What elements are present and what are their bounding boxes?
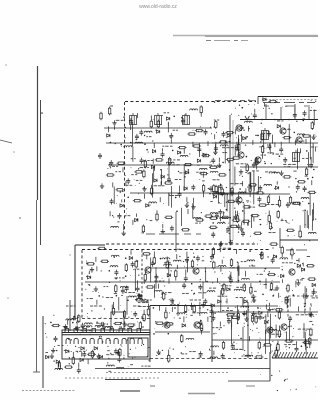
resistor R107 [285, 296, 287, 305]
label text T96 [134, 268, 143, 270]
resistor R119 [306, 265, 315, 267]
ground GND20 [94, 286, 98, 291]
scan speck S192 [279, 295, 282, 298]
scan speck S142 [229, 194, 232, 197]
bottom dashed note [106, 372, 230, 374]
label text T122 [182, 292, 189, 294]
mid link wire [289, 298, 291, 307]
scan speck S374 [162, 350, 163, 351]
stub wire [256, 165, 258, 170]
scan speck S91 [286, 221, 287, 222]
label text T71 [287, 166, 290, 168]
inductor L33 [218, 266, 226, 268]
junction J62 [238, 280, 240, 282]
transistor Q11 [164, 322, 170, 328]
scan speck S384 [277, 343, 278, 344]
label text T13 [304, 105, 310, 107]
scan speck S353 [63, 326, 64, 327]
inductor L40 [242, 278, 250, 280]
scan speck S303 [100, 316, 103, 319]
resistor R13 [201, 154, 210, 156]
scan speck S102 [299, 150, 302, 153]
diode D18 [277, 125, 280, 128]
connector pin 2 [74, 329, 78, 333]
junction J79 [73, 316, 75, 318]
resistor R116 [226, 314, 235, 316]
scan speck S439 [292, 327, 295, 330]
junction J48 [230, 217, 232, 219]
resistor R57 [243, 206, 252, 208]
margin stray wire [0, 140, 12, 143]
diode D10 [184, 187, 187, 190]
ground GND37 [97, 353, 101, 358]
label text T154 [66, 305, 76, 307]
inductor L36 [162, 258, 170, 260]
edge link wire [306, 210, 308, 228]
diode D4 [152, 150, 155, 153]
resistor R136 [135, 299, 144, 301]
resistor R125 [119, 348, 121, 357]
junction J88 [240, 338, 242, 340]
scan speck S310 [129, 327, 130, 328]
capacitor C21 [218, 209, 222, 215]
svg-text:www.old-radio.cz: www.old-radio.cz [139, 4, 177, 10]
scan speck S93 [311, 100, 312, 101]
junction J45 [228, 161, 230, 163]
junction J54 [160, 258, 162, 260]
resistor R127 [87, 353, 96, 355]
hatched strip [272, 352, 317, 358]
pin number 5 [108, 326, 111, 328]
capacitor C15 [126, 178, 130, 184]
capacitor C43 [252, 162, 256, 168]
scan speck S383 [268, 330, 269, 331]
capacitor C22 [226, 226, 230, 232]
capacitor C75 [82, 351, 86, 357]
capacitor C25 [293, 112, 297, 118]
scan speck S300 [134, 356, 135, 357]
scan speck S309 [99, 336, 100, 337]
label text T139 [296, 279, 303, 281]
scan speck S285 [136, 320, 139, 323]
capacitor C82 [288, 316, 292, 322]
scan speck S191 [263, 317, 264, 318]
junction J70 [293, 294, 295, 296]
scan speck S265 [200, 279, 201, 280]
scan speck S296 [115, 330, 118, 333]
scan speck S340 [109, 340, 110, 341]
stub wire [236, 142, 238, 145]
scan speck S428 [272, 329, 273, 330]
label text T22 [162, 145, 172, 147]
resistor R50 [267, 195, 269, 204]
tap wire [176, 254, 178, 259]
inductor L14 [149, 202, 157, 204]
capacitor C19 [233, 214, 237, 220]
diode D41 [46, 356, 49, 359]
scan speck S243 [86, 276, 87, 277]
left bus foot [33, 371, 40, 373]
scan speck S49 [169, 194, 170, 195]
resistor R10 [168, 157, 170, 166]
scan speck S26 [137, 192, 140, 195]
capacitor C30 [235, 145, 239, 151]
label text T30 [131, 174, 137, 176]
scan speck S318 [53, 315, 54, 316]
scan speck S64 [184, 113, 187, 116]
scan speck S35 [115, 143, 116, 144]
junction J71 [127, 300, 129, 302]
scan speck S27 [125, 137, 126, 138]
diode D29 [227, 288, 230, 291]
scan speck S314 [146, 355, 149, 358]
stub wire [299, 225, 301, 231]
resistor R8 [117, 162, 126, 164]
resistor R124 [91, 350, 93, 359]
label text T97 [202, 260, 205, 262]
scan speck S426 [289, 340, 292, 343]
scan speck S302 [79, 333, 82, 336]
footer dashed mark [22, 390, 75, 392]
junction J12 [188, 169, 190, 171]
scan speck S267 [277, 275, 280, 278]
scan speck S24 [120, 191, 121, 192]
label text T136 [218, 295, 228, 297]
scan speck S155 [227, 222, 230, 225]
resistor R14 [106, 174, 115, 176]
resistor R137 [231, 316, 240, 318]
inductor L53 [55, 368, 63, 369]
tap wire [249, 336, 251, 341]
junction J44 [222, 162, 224, 164]
junction J9 [144, 143, 146, 145]
edge link wire [313, 203, 315, 221]
label text T67 [294, 157, 296, 159]
stub wire [137, 280, 139, 285]
scan speck S246 [178, 302, 181, 305]
inductor L20 [245, 121, 253, 123]
scan speck S305 [127, 339, 128, 340]
connector drop wire [69, 300, 71, 331]
ground GND28 [242, 311, 246, 316]
resistor R113 [123, 310, 125, 319]
if link wire [263, 132, 265, 154]
resistor R108 [112, 307, 114, 316]
psu link wire [289, 321, 291, 342]
junction J39 [312, 177, 314, 179]
transistor Q10 [281, 324, 287, 330]
left bus wire 2 [40, 100, 42, 245]
diode D16 [263, 98, 266, 101]
scan speck S222 [160, 296, 163, 299]
tap wire [253, 186, 255, 191]
scan speck S451 [271, 375, 272, 376]
scan speck S144 [264, 184, 265, 185]
junction J55 [187, 257, 189, 259]
stub wire [176, 265, 178, 269]
stub wire [237, 310, 239, 314]
label text T152 [130, 364, 133, 366]
label text T72 [293, 170, 296, 172]
ground GND16 [90, 267, 94, 272]
rf link wire [183, 165, 185, 191]
junction J18 [247, 223, 249, 225]
junction J58 [109, 270, 111, 272]
label text T52 [285, 105, 287, 107]
scan speck S450 [277, 390, 278, 391]
scan speck S193 [282, 269, 283, 270]
label text T76 [246, 200, 249, 202]
tap wire [172, 299, 174, 304]
resistor R6 [195, 129, 204, 131]
tap wire [144, 194, 146, 199]
junction J31 [226, 209, 228, 211]
tap wire [171, 307, 173, 312]
diode D32 [211, 304, 214, 307]
stub wire [245, 271, 247, 277]
frame corner top [75, 244, 105, 246]
scan speck S74 [249, 200, 252, 203]
label text T130 [236, 297, 246, 299]
label text T38 [209, 193, 220, 195]
scan speck S366 [153, 327, 156, 330]
capacitor C11 [167, 177, 171, 183]
scan speck S420 [256, 328, 257, 329]
scan speck S12 [112, 215, 113, 216]
scan speck S342 [130, 349, 131, 350]
inductor L60 [245, 355, 253, 357]
scan speck S283 [237, 262, 238, 263]
capacitor C49 [271, 258, 275, 264]
junction J65 [116, 295, 118, 297]
scan speck S289 [142, 319, 145, 322]
tap wire [312, 209, 314, 214]
label text T138 [296, 259, 299, 261]
scan speck S54 [162, 202, 165, 205]
stub wire [254, 109, 256, 113]
scan speck S197 [119, 304, 122, 307]
inductor L47 [199, 312, 207, 314]
label text T39 [126, 184, 132, 186]
tap wire [236, 249, 238, 254]
ground GND17 [100, 183, 104, 188]
label text T179 [246, 385, 255, 387]
resistor R90 [153, 256, 155, 265]
scan speck S73 [239, 105, 240, 106]
capacitor C70 [100, 322, 106, 326]
label text T115 [270, 289, 277, 291]
label text T102 [164, 262, 171, 264]
scan speck S240 [184, 286, 187, 289]
pin number 8 [141, 326, 144, 328]
scan speck S272 [294, 263, 295, 264]
resistor R52 [289, 196, 291, 205]
label text T14 [215, 100, 221, 102]
capacitor C80 [199, 351, 203, 357]
diode D28 [281, 274, 284, 277]
label text T16 [240, 100, 245, 102]
dial box left [257, 97, 259, 105]
scan speck S48 [166, 168, 169, 171]
label text T21 [173, 129, 178, 131]
scan speck S221 [109, 282, 110, 283]
capacitor C52 [210, 254, 214, 260]
scan speck S280 [273, 295, 274, 296]
scan speck S200 [130, 311, 133, 314]
inductor L16 [238, 192, 246, 194]
stub wire [185, 270, 187, 276]
tap wire [187, 209, 189, 214]
scan speck S423 [215, 333, 216, 334]
scan speck S130 [247, 103, 250, 106]
scan speck S334 [76, 322, 77, 323]
resistor R133 [181, 334, 183, 343]
scan speck S262 [193, 253, 194, 254]
label text T140 [312, 297, 319, 299]
left bus wire [37, 66, 39, 200]
label text T166 [296, 314, 308, 316]
dial box top [258, 96, 318, 98]
capacitor C85 [295, 346, 299, 352]
ground GND30 [296, 280, 300, 285]
tap wire [295, 281, 297, 286]
junction J64 [98, 295, 100, 297]
label text T85 [219, 247, 231, 249]
dial drop wire [265, 104, 267, 119]
scan speck S185 [272, 247, 273, 248]
label text T113 [198, 292, 206, 294]
stub wire [214, 144, 216, 149]
scan speck S419 [232, 312, 235, 315]
ground GND22 [275, 285, 279, 290]
scan speck S117 [226, 202, 227, 203]
resistor R7 [178, 146, 187, 148]
junction J86 [247, 324, 249, 326]
scan speck S45 [170, 137, 171, 138]
inductor L22 [210, 171, 218, 173]
stub wire [219, 215, 221, 221]
scan speck S299 [132, 331, 133, 332]
scan speck S231 [86, 312, 89, 315]
scan speck S406 [257, 307, 258, 308]
scan speck S338 [56, 350, 57, 351]
diode D30 [244, 300, 247, 303]
scan speck S312 [107, 323, 108, 324]
resistor R132 [165, 323, 174, 325]
junction J73 [272, 309, 274, 311]
scan speck S169 [234, 207, 235, 208]
scan speck S66 [267, 130, 270, 133]
stub wire [168, 278, 170, 283]
tap wire [245, 188, 247, 193]
scan speck S385 [286, 346, 287, 347]
diode D8 [203, 153, 206, 156]
junction J8 [130, 142, 132, 144]
stub wire [78, 363, 80, 368]
label text T57 [277, 120, 284, 122]
resistor R66 [299, 230, 301, 239]
scan speck S430 [284, 331, 287, 334]
resistor R43 [305, 167, 307, 176]
inductor L17 [193, 217, 201, 219]
stub wire [296, 341, 298, 346]
diode D35 [301, 268, 304, 271]
stub wire [76, 321, 78, 325]
psu link wire [265, 314, 267, 334]
scan speck S229 [97, 291, 100, 294]
bottom dashed note 2 [65, 377, 160, 379]
inductor L37 [280, 258, 288, 260]
resistor R148 [255, 356, 264, 358]
scan speck S271 [119, 279, 122, 282]
inductor L26 [293, 202, 301, 204]
scan speck S11 [130, 144, 133, 147]
stub wire [313, 288, 315, 293]
scan speck S76 [311, 164, 312, 165]
label text T82 [252, 170, 259, 172]
label text T95 [86, 262, 89, 264]
resistor R129 [51, 324, 60, 326]
scan speck S350 [127, 365, 130, 368]
scan speck S234 [143, 300, 144, 301]
scan speck S391 [248, 307, 249, 308]
resistor R26 [156, 213, 158, 222]
if link wire [234, 167, 236, 186]
scan speck S425 [212, 305, 215, 308]
scan speck S85 [219, 166, 222, 169]
capacitor C46 [241, 231, 245, 237]
scan speck S328 [88, 318, 89, 319]
scan speck S333 [102, 341, 103, 342]
ground GND44 [309, 312, 313, 317]
label text T5 [110, 105, 113, 107]
scan speck S330 [107, 362, 108, 363]
label text T173 [309, 334, 313, 336]
scan speck S313 [123, 357, 124, 358]
scan speck S365 [161, 325, 164, 328]
scan speck S275 [294, 253, 295, 254]
junction J47 [239, 188, 241, 190]
scan speck S454 [259, 373, 262, 376]
junction J2 [123, 116, 125, 118]
right frame drop [279, 228, 281, 248]
label text T36 [167, 174, 169, 176]
if box bottom dashed [82, 318, 150, 320]
label text T144 [123, 327, 130, 329]
ground GND40 [156, 350, 160, 355]
capacitor C13 [191, 185, 195, 191]
scan speck S51 [107, 168, 108, 169]
diode D7 [197, 159, 200, 162]
junction J19 [242, 107, 244, 109]
scan speck S206 [164, 285, 165, 286]
stub wire [268, 211, 270, 216]
scan speck S279 [271, 279, 274, 282]
stub wire [269, 303, 271, 307]
junction J82 [50, 322, 52, 324]
junction J25 [294, 132, 296, 134]
capacitor C58 [125, 286, 129, 292]
capacitor C40 [237, 199, 241, 205]
scan speck S28 [189, 153, 190, 154]
left bus wire lower [36, 200, 38, 372]
resistor R60 [268, 214, 270, 223]
scan speck S160 [278, 158, 281, 161]
stub wire [234, 211, 236, 214]
scan speck S156 [221, 187, 224, 190]
scan speck S225 [92, 291, 93, 292]
scan speck S187 [252, 241, 255, 244]
